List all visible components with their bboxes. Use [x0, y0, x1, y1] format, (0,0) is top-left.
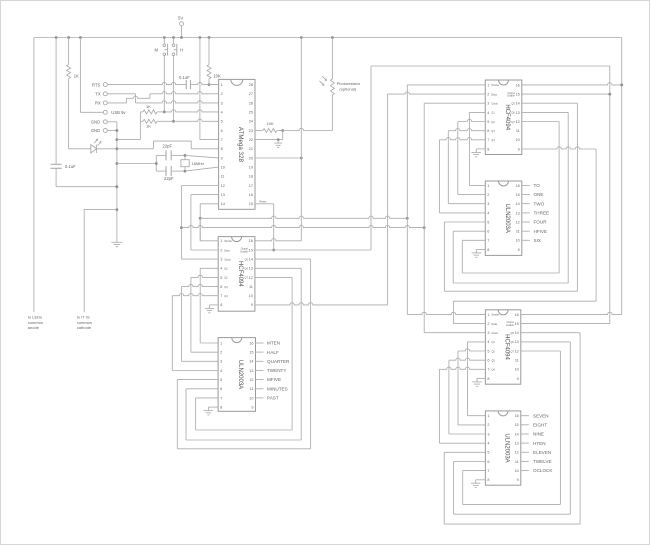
terminal USB 5V	[103, 110, 126, 115]
wire button M to pin4	[164, 110, 218, 112]
svg-text:Q4: Q4	[491, 138, 495, 142]
svg-text:12: 12	[249, 276, 253, 280]
svg-text:6: 6	[487, 129, 489, 133]
svg-text:19: 19	[249, 166, 253, 170]
driver IC5 ULN2003A	[485, 181, 522, 255]
svg-text:USB 5v: USB 5v	[111, 110, 126, 115]
svg-text:MFIVE: MFIVE	[267, 377, 281, 382]
svg-text:Strobe: Strobe	[491, 313, 499, 317]
terminal 5V	[178, 16, 184, 38]
wire gnd vertical	[116, 122, 118, 239]
svg-text:Data: Data	[491, 92, 497, 96]
svg-text:11: 11	[221, 175, 225, 179]
svg-text:3: 3	[221, 101, 223, 105]
svg-text:4: 4	[220, 267, 222, 271]
wire IC2 data in	[191, 249, 218, 251]
svg-text:EIGHT: EIGHT	[533, 422, 547, 427]
ground main	[111, 239, 122, 247]
wire IC4 Q5 ring to ULN2 pin5	[444, 103, 577, 291]
svg-text:15: 15	[515, 423, 519, 427]
svg-text:THREE: THREE	[534, 211, 550, 216]
svg-text:ULN2003A: ULN2003A	[504, 204, 510, 233]
svg-text:11: 11	[516, 230, 520, 234]
svg-text:2: 2	[487, 423, 489, 427]
svg-text:16: 16	[516, 184, 520, 188]
svg-text:Q1: Q1	[491, 340, 495, 344]
wire Q1 to ULN1 pin1	[200, 268, 218, 343]
svg-text:3: 3	[487, 432, 489, 436]
wire IC4 QS to IC6 data	[453, 147, 596, 324]
svg-text:11: 11	[249, 285, 253, 289]
svg-text:Q5: Q5	[510, 331, 514, 335]
svg-text:10: 10	[249, 396, 253, 400]
ground IC7 pin8	[471, 480, 486, 488]
svg-text:5: 5	[487, 451, 489, 455]
svg-text:25: 25	[249, 111, 253, 115]
svg-text:14: 14	[515, 331, 519, 335]
svg-text:Data: Data	[491, 322, 497, 326]
svg-text:Q5: Q5	[511, 102, 515, 106]
svg-text:Q7: Q7	[244, 276, 248, 280]
svg-text:TX: TX	[95, 92, 101, 97]
svg-text:Clock: Clock	[224, 257, 231, 261]
svg-text:7: 7	[220, 294, 222, 298]
svg-text:SEVEN: SEVEN	[533, 413, 549, 418]
svg-text:Q5: Q5	[244, 257, 248, 261]
node rail x332.4	[331, 36, 334, 39]
wire IC6 Q2 to ULN3 pin2	[458, 349, 485, 425]
ground IC6 pin8	[472, 378, 485, 386]
svg-text:8: 8	[487, 377, 489, 381]
svg-text:6: 6	[220, 285, 222, 289]
svg-text:5: 5	[220, 276, 222, 280]
svg-text:7: 7	[220, 396, 222, 400]
svg-text:Q3: Q3	[224, 285, 228, 289]
svg-text:14: 14	[249, 258, 253, 262]
svg-text:3: 3	[220, 258, 222, 262]
svg-text:HCF4094: HCF4094	[503, 334, 509, 360]
svg-text:12: 12	[249, 378, 253, 382]
svg-text:5: 5	[487, 349, 489, 353]
svg-text:1: 1	[487, 414, 489, 418]
svg-text:12: 12	[515, 451, 519, 455]
svg-text:22pF: 22pF	[164, 176, 174, 181]
svg-text:6: 6	[487, 230, 489, 234]
wire Q5 ring to ULN1 pin5	[177, 259, 310, 449]
node reset pullup	[208, 83, 211, 86]
svg-text:Q7: Q7	[511, 120, 515, 124]
wire IC4 Q3 to ULN2 pin3	[448, 129, 485, 204]
svg-text:16: 16	[515, 313, 519, 317]
svg-text:13: 13	[221, 193, 225, 197]
svg-text:8: 8	[221, 147, 223, 151]
node crystal gnd	[155, 162, 158, 165]
svg-text:13: 13	[249, 369, 253, 373]
node pin20 vcc	[300, 157, 303, 160]
svg-text:Enable: Enable	[240, 250, 248, 253]
svg-text:Enable: Enable	[506, 324, 514, 327]
svg-text:10: 10	[249, 294, 253, 298]
svg-text:0.1uF: 0.1uF	[65, 164, 76, 169]
svg-text:13: 13	[249, 267, 253, 271]
wire IC4 Q1 to ULN2 pin1	[469, 112, 485, 185]
resistor R5 10K	[255, 121, 283, 132]
wire RX to pin2	[108, 92, 219, 103]
node IC4 pin16 vcc	[620, 84, 623, 87]
wire 5V rail	[34, 37, 622, 39]
node rail x301.3	[300, 36, 303, 39]
svg-text:2: 2	[221, 92, 223, 96]
resistor R1 1K	[67, 38, 80, 149]
wire clock riser	[424, 103, 485, 333]
wire IC2 QS to IC4 data	[255, 92, 485, 305]
shift register IC6 HCF4094	[485, 310, 520, 384]
svg-text:2: 2	[487, 322, 489, 326]
svg-text:ONE: ONE	[534, 192, 544, 197]
svg-text:HCF4094: HCF4094	[504, 104, 510, 130]
svg-text:1K: 1K	[146, 104, 151, 109]
svg-text:9: 9	[221, 156, 223, 160]
wire crystal to pin10	[185, 167, 219, 171]
wire 5V to pin7	[200, 38, 219, 140]
wire IC2 clock in	[181, 258, 218, 260]
svg-text:Q2: Q2	[224, 276, 228, 280]
svg-text:16: 16	[249, 239, 253, 243]
node gnd y209.6	[116, 208, 119, 211]
svg-text:HCF4094: HCF4094	[237, 261, 243, 287]
terminal GND2	[91, 128, 108, 133]
svg-text:1K: 1K	[74, 73, 79, 78]
wire 5V riser to IC2 pin16	[255, 38, 301, 241]
svg-text:2: 2	[220, 248, 222, 252]
svg-text:ELEVEN: ELEVEN	[533, 450, 551, 455]
svg-text:1K: 1K	[146, 124, 151, 129]
node IC4 pin15 OE	[608, 93, 611, 96]
svg-text:TO: TO	[534, 183, 541, 188]
svg-text:23: 23	[249, 129, 253, 133]
node clock bus end	[423, 226, 426, 229]
svg-text:(optional): (optional)	[339, 87, 356, 92]
svg-text:8: 8	[487, 478, 489, 482]
svg-text:MTEN: MTEN	[267, 341, 280, 346]
svg-text:cathode: cathode	[77, 325, 92, 330]
wire pin13 data drop	[191, 195, 219, 250]
wire crystal gnd branch	[117, 163, 156, 165]
svg-text:Reset: Reset	[260, 199, 267, 203]
svg-text:RTS: RTS	[92, 82, 101, 87]
wire IC6 Q4 to ULN3 pin4	[439, 367, 485, 443]
wire clock bus	[181, 225, 424, 227]
svg-text:GND: GND	[91, 120, 100, 125]
svg-text:13: 13	[516, 111, 520, 115]
svg-text:12: 12	[516, 220, 520, 224]
node rail x199.9	[199, 36, 202, 39]
svg-text:OCLOCK: OCLOCK	[533, 468, 553, 473]
wire GND1	[108, 121, 117, 123]
wire to IT IS cathode	[84, 210, 117, 313]
wire IC4 Q7 ring to ULN2 pin7	[462, 122, 559, 274]
ULN3 output stubs SEVEN..OCLOCK	[521, 413, 554, 473]
svg-text:1: 1	[487, 313, 489, 317]
svg-text:8: 8	[220, 303, 222, 307]
ground IC2 pin8	[205, 305, 219, 313]
svg-text:Q4: Q4	[491, 368, 495, 372]
svg-text:M: M	[155, 47, 159, 52]
svg-text:5: 5	[487, 220, 489, 224]
svg-text:16: 16	[249, 341, 253, 345]
svg-text:5: 5	[220, 378, 222, 382]
svg-text:Strobe: Strobe	[491, 83, 499, 87]
node gnd y130.5	[116, 129, 119, 132]
node gnd y148.8	[116, 147, 119, 150]
pushbutton H	[172, 38, 183, 122]
label to IT IS common cathode	[77, 315, 92, 330]
svg-text:FOUR: FOUR	[534, 220, 548, 225]
wire C1 to gnd rail	[56, 186, 117, 188]
svg-text:Q4: Q4	[224, 294, 228, 298]
svg-text:10: 10	[516, 239, 520, 243]
crystal Y1 16MHz	[181, 155, 204, 171]
svg-text:1: 1	[220, 239, 222, 243]
wire USB 5V	[80, 38, 103, 113]
svg-text:Q7: Q7	[510, 349, 514, 353]
svg-text:16: 16	[249, 193, 253, 197]
ground IC4 pin8	[471, 149, 485, 157]
svg-text:Q6: Q6	[510, 340, 514, 344]
svg-text:27: 27	[249, 92, 253, 96]
svg-text:HTEN: HTEN	[533, 441, 546, 446]
svg-text:ULN2003A: ULN2003A	[503, 433, 509, 462]
node crystal top	[184, 154, 187, 157]
shift register IC2 HCF4094	[218, 237, 255, 312]
node IC2 pin15 OE	[272, 249, 275, 252]
svg-text:13: 13	[515, 340, 519, 344]
wire IC4 Q4 to ULN2 pin4	[439, 138, 485, 213]
wire IC6 Q6 ring to ULN3 pin6	[454, 342, 571, 514]
svg-text:9: 9	[251, 405, 253, 409]
wire rail left drop to LEDs-anode	[33, 38, 35, 313]
svg-text:1: 1	[487, 184, 489, 188]
svg-text:15: 15	[516, 193, 520, 197]
svg-text:7: 7	[221, 138, 223, 142]
svg-text:Enable: Enable	[507, 94, 515, 97]
wire button H to pin5	[174, 119, 219, 121]
svg-text:4: 4	[487, 211, 489, 215]
svg-text:NINE: NINE	[533, 432, 544, 437]
node strobe bus start	[199, 217, 202, 220]
wire pulldown common	[117, 112, 140, 140]
driver IC7 ULN2003A	[485, 411, 520, 485]
svg-text:16: 16	[516, 83, 520, 87]
wire Q7 ring to ULN1 pin7	[196, 277, 293, 430]
svg-text:3: 3	[487, 102, 489, 106]
svg-text:MINUTES: MINUTES	[267, 386, 288, 391]
node gnd y163.5	[116, 162, 119, 165]
svg-text:16MHz: 16MHz	[192, 161, 205, 166]
svg-text:Q6: Q6	[511, 111, 515, 115]
resistor R2 10K	[207, 38, 221, 85]
node button H	[172, 120, 175, 123]
svg-text:14: 14	[516, 102, 520, 106]
node button M	[163, 111, 166, 114]
wire IC4 Q2 to ULN2 pin2	[458, 119, 486, 194]
svg-text:22: 22	[249, 138, 253, 142]
svg-text:SIX: SIX	[534, 238, 541, 243]
node rail x181.5	[180, 36, 183, 39]
wire pin15 to OE riser	[255, 199, 274, 250]
svg-text:2: 2	[487, 93, 489, 97]
svg-text:HALF: HALF	[267, 350, 279, 355]
wire strobe bus	[200, 216, 407, 218]
wire gnd to pin8	[117, 141, 219, 149]
svg-text:20: 20	[249, 156, 253, 160]
svg-text:11: 11	[515, 359, 519, 363]
svg-text:4: 4	[487, 442, 489, 446]
capacitor C3 22pF	[156, 144, 185, 172]
node rail x56.1	[55, 36, 58, 39]
svg-text:7: 7	[487, 469, 489, 473]
svg-text:10: 10	[515, 368, 519, 372]
svg-text:22pF: 22pF	[163, 144, 173, 149]
svg-text:5: 5	[487, 120, 489, 124]
ground pin22	[274, 140, 282, 148]
svg-text:GND: GND	[91, 128, 100, 133]
svg-text:ULN2003A: ULN2003A	[237, 360, 243, 389]
svg-text:HFIVE: HFIVE	[534, 229, 548, 234]
svg-text:9: 9	[518, 147, 520, 151]
svg-text:RX: RX	[95, 101, 101, 106]
svg-text:28: 28	[249, 83, 253, 87]
svg-text:2: 2	[487, 193, 489, 197]
svg-text:14: 14	[249, 360, 253, 364]
svg-text:1: 1	[221, 83, 223, 87]
wire TX to pin3	[108, 94, 219, 103]
svg-text:2: 2	[220, 351, 222, 355]
wire OE net	[255, 66, 610, 324]
wire Q2 to ULN1 pin2	[191, 275, 218, 352]
svg-text:7: 7	[487, 239, 489, 243]
svg-text:anode: anode	[28, 325, 40, 330]
svg-text:1: 1	[220, 341, 222, 345]
wire Q4 to ULN1 pin4	[172, 294, 218, 371]
svg-text:4: 4	[220, 369, 222, 373]
wire Q3 to ULN1 pin3	[182, 284, 219, 361]
svg-text:5: 5	[221, 120, 223, 124]
terminal GND1	[91, 120, 108, 125]
wire LDR to R5	[283, 128, 333, 130]
svg-text:9: 9	[517, 478, 519, 482]
svg-text:Q2: Q2	[491, 120, 495, 124]
ground IC5 pin8	[472, 249, 486, 257]
svg-text:Data: Data	[224, 248, 230, 252]
svg-text:Clock: Clock	[491, 331, 498, 335]
svg-text:Q6: Q6	[244, 267, 248, 271]
capacitor C2 0.1uF (reset)	[108, 75, 219, 89]
svg-text:10K: 10K	[213, 73, 221, 78]
svg-text:15: 15	[515, 322, 519, 326]
svg-text:Q1: Q1	[224, 267, 228, 271]
svg-text:12: 12	[221, 184, 225, 188]
ULN2 output stubs TO..SIX	[522, 183, 549, 243]
resistor R3 1K	[140, 104, 164, 114]
svg-text:ATMega 328: ATMega 328	[237, 127, 244, 163]
svg-text:8: 8	[220, 405, 222, 409]
svg-text:13: 13	[516, 211, 520, 215]
svg-text:11: 11	[516, 129, 520, 133]
svg-text:4: 4	[487, 340, 489, 344]
svg-text:16: 16	[515, 414, 519, 418]
wire IC6 Q3 to ULN3 pin3	[449, 358, 486, 434]
svg-text:9: 9	[518, 248, 520, 252]
node rail x173.5	[172, 36, 175, 39]
wire R5 to gnd	[255, 131, 283, 140]
svg-text:Q3: Q3	[491, 129, 495, 133]
ULN1 output stubs MTEN..PAST	[256, 341, 291, 401]
svg-text:15: 15	[249, 202, 253, 206]
svg-text:21: 21	[249, 147, 253, 151]
svg-text:7: 7	[487, 138, 489, 142]
ground IC3 pin8	[204, 407, 218, 415]
svg-text:Q2: Q2	[491, 349, 495, 353]
svg-text:14: 14	[515, 432, 519, 436]
wire IC6 Q7 ring to ULN3 pin7	[463, 351, 561, 504]
wire Q6 ring to ULN1 pin6	[186, 268, 301, 440]
LED D1	[69, 139, 117, 153]
svg-text:24: 24	[249, 120, 253, 124]
svg-text:18: 18	[249, 175, 253, 179]
terminal RTS	[92, 82, 107, 87]
svg-text:Strobe: Strobe	[224, 239, 232, 243]
svg-text:4: 4	[221, 111, 223, 115]
wire pin12 clock drop	[181, 186, 218, 260]
wire IC6 Q1 to ULN3 pin1	[468, 342, 486, 416]
svg-text:TWO: TWO	[534, 201, 545, 206]
resistor R4 1K	[140, 119, 173, 128]
capacitor C1 0.1uF	[51, 38, 77, 187]
svg-text:3: 3	[220, 360, 222, 364]
svg-text:Q3: Q3	[491, 358, 495, 362]
svg-text:11: 11	[250, 387, 254, 391]
wire pin14 strobe drop	[200, 204, 218, 241]
svg-text:11: 11	[515, 460, 519, 464]
svg-text:3: 3	[487, 331, 489, 335]
node R5 out	[281, 129, 284, 132]
node crystal bottom	[184, 170, 187, 173]
svg-text:H: H	[180, 47, 183, 52]
wire pin20 AVCC	[255, 157, 301, 159]
node strobe bus end	[406, 217, 409, 220]
node rail x164.3	[163, 36, 166, 39]
wire strobe riser	[407, 85, 485, 315]
wire GND2	[108, 130, 117, 132]
wire crystal to pin9	[185, 155, 219, 158]
svg-text:10K: 10K	[267, 121, 274, 126]
svg-text:26: 26	[249, 101, 253, 105]
svg-text:13: 13	[515, 442, 519, 446]
svg-text:7: 7	[487, 368, 489, 372]
node rail x80.4	[79, 36, 82, 39]
svg-text:8: 8	[487, 147, 489, 151]
svg-text:Clock: Clock	[491, 102, 498, 106]
svg-text:15: 15	[249, 248, 253, 252]
node rail x209.0	[208, 36, 211, 39]
svg-text:6: 6	[220, 387, 222, 391]
wire IC4 Q6 ring to ULN2 pin6	[453, 112, 568, 283]
wire IC2 strobe in	[200, 218, 218, 241]
svg-text:17: 17	[249, 184, 253, 188]
svg-text:Q1: Q1	[491, 111, 495, 115]
svg-text:6: 6	[487, 359, 489, 363]
